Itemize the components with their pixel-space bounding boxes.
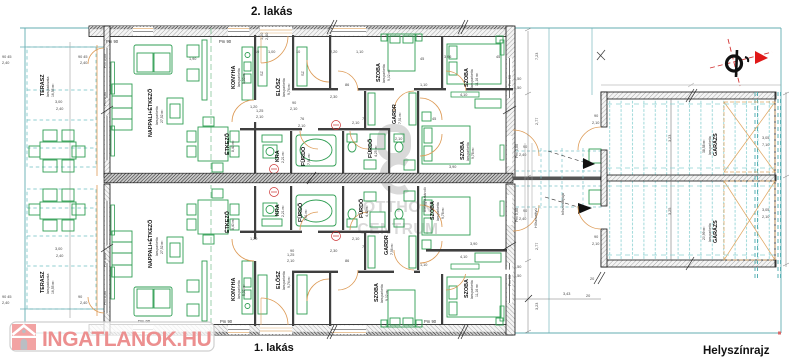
- red tick on bottom site line: [778, 332, 781, 335]
- svg-text:2,30: 2,30: [330, 249, 337, 253]
- garage door arcs: [578, 127, 601, 229]
- garage horizontal teal dashes: [607, 104, 775, 255]
- svg-text:90 45: 90 45: [2, 55, 12, 59]
- wall unit: [112, 84, 132, 130]
- svg-text:38,58 m²: 38,58 m²: [702, 139, 706, 153]
- svg-text:4,25 m²: 4,25 m²: [374, 145, 378, 157]
- sofa: [134, 45, 172, 74]
- bath3 fixtures: [394, 134, 415, 170]
- terrace top: dashed border: [27, 47, 96, 309]
- svg-text:7,23: 7,23: [535, 53, 539, 60]
- svg-text:7,91 m²: 7,91 m²: [307, 153, 311, 165]
- garage right boundary line: [774, 92, 776, 267]
- svg-text:2,10: 2,10: [762, 215, 769, 219]
- svg-text:1,90: 1,90: [189, 57, 196, 61]
- svg-text:3,05: 3,05: [762, 136, 769, 140]
- svg-text:Hőszivattyú: Hőszivattyú: [534, 208, 538, 228]
- door arcs: [88, 36, 539, 156]
- svg-text:2,40: 2,40: [80, 61, 87, 65]
- svg-text:9,74 m²: 9,74 m²: [287, 276, 291, 288]
- terrace left dim line: [69, 42, 71, 318]
- svg-text:3,25: 3,25: [668, 208, 672, 215]
- svg-text:8,40 m²: 8,40 m²: [231, 218, 235, 230]
- svg-text:GARÁZS: GARÁZS: [712, 133, 719, 156]
- svg-text:45: 45: [496, 55, 500, 59]
- svg-text:7,56 m²: 7,56 m²: [390, 243, 394, 255]
- svg-text:ELŐSZ: ELŐSZ: [275, 77, 282, 96]
- courtyard dashed grid: [516, 148, 602, 209]
- bath2 fixtures: [347, 134, 385, 169]
- svg-text:3,23: 3,23: [535, 303, 539, 310]
- interior walls: [240, 35, 513, 175]
- svg-text:Helyszínrajz: Helyszínrajz: [703, 345, 770, 357]
- svg-text:FÜRDŐ: FÜRDŐ: [297, 203, 304, 222]
- pantry washer: [262, 135, 282, 158]
- svg-text:2,30: 2,30: [330, 95, 337, 99]
- svg-text:5,33 m²: 5,33 m²: [242, 72, 246, 84]
- svg-text:16,55 m²: 16,55 m²: [51, 83, 55, 97]
- svg-text:1,10: 1,10: [420, 83, 427, 87]
- svg-text:lam.parketta: lam.parketta: [155, 106, 159, 125]
- red floor drain markers: [270, 121, 341, 174]
- svg-text:Pm 90: Pm 90: [219, 39, 232, 44]
- orange X cross top: [724, 102, 775, 172]
- dim tick cross: [597, 50, 605, 60]
- svg-text:INGATLANOK.HU: INGATLANOK.HU: [42, 328, 211, 351]
- orange X cross bottom: [724, 181, 775, 260]
- svg-text:lam.parketta: lam.parketta: [470, 280, 474, 299]
- svg-text:lam.parketta: lam.parketta: [155, 237, 159, 256]
- svg-text:2,20: 2,20: [330, 50, 337, 54]
- svg-text:lam.padozata: lam.padozata: [46, 77, 50, 97]
- right vertical dim line: [513, 28, 601, 333]
- svg-text:1. lakás: 1. lakás: [254, 342, 294, 354]
- svg-text:lam.parketta: lam.parketta: [466, 142, 470, 161]
- dimension texts left margin: [2, 55, 88, 305]
- ingatlanok.hu logo: [10, 322, 214, 351]
- svg-text:1,10: 1,10: [420, 263, 427, 267]
- svg-text:7,91 m²: 7,91 m²: [304, 209, 308, 221]
- right wall radiators: [500, 40, 504, 160]
- left exterior wall: [104, 26, 110, 177]
- svg-text:NAPPALI+ÉTKEZŐ: NAPPALI+ÉTKEZŐ: [146, 220, 154, 268]
- terrace edge orange line: [96, 45, 98, 176]
- svg-text:1,50: 1,50: [514, 86, 521, 90]
- svg-text:3,90: 3,90: [470, 242, 477, 246]
- heat pump units: [589, 149, 601, 204]
- section dash line: [210, 28, 212, 176]
- property dashed teal verticals at right: [755, 92, 781, 278]
- svg-text:lam.parketta: lam.parketta: [708, 223, 712, 242]
- svg-text:27,52 m²: 27,52 m²: [160, 240, 164, 254]
- svg-text:ÉTKEZŐ: ÉTKEZŐ: [223, 133, 231, 155]
- TERASZ label top: [40, 74, 55, 97]
- white cover over mirrored wall segs: [420, 270, 513, 274]
- svg-text:10: 10: [255, 50, 259, 54]
- svg-text:10: 10: [296, 50, 300, 54]
- svg-text:1,25: 1,25: [287, 253, 294, 257]
- svg-text:lam.parketta: lam.parketta: [382, 64, 386, 83]
- svg-text:9,74 m²: 9,74 m²: [287, 83, 291, 95]
- svg-text:20,99 m²: 20,99 m²: [702, 226, 706, 240]
- svg-text:4,10: 4,10: [460, 255, 467, 259]
- svg-text:3,43: 3,43: [563, 292, 570, 296]
- party wall: [104, 173, 513, 183]
- svg-text:2,10: 2,10: [592, 121, 599, 125]
- svg-text:ELŐSZ: ELŐSZ: [275, 270, 282, 289]
- svg-text:3,23: 3,23: [668, 135, 672, 142]
- svg-text:1,20: 1,20: [260, 33, 264, 40]
- svg-text:2,40: 2,40: [519, 217, 526, 221]
- svg-text:FÜRDŐ: FÜRDŐ: [300, 147, 307, 166]
- dining table + chairs: [187, 117, 239, 172]
- party wall extension to garage: [513, 177, 608, 181]
- window slots in right wall: [507, 58, 512, 166]
- svg-text:2,40: 2,40: [56, 107, 63, 111]
- svg-text:Pm 90: Pm 90: [508, 75, 512, 86]
- svg-text:90: 90: [594, 235, 598, 239]
- svg-text:2,10: 2,10: [352, 121, 359, 125]
- TERASZ label bottom: [40, 271, 55, 294]
- svg-text:2,21 m²: 2,21 m²: [281, 205, 285, 217]
- wardrobe SZ 1: [258, 47, 267, 86]
- compass: [710, 39, 772, 86]
- kitchen counter: [242, 47, 253, 100]
- svg-text:5,33 m²: 5,33 m²: [242, 284, 246, 296]
- svg-text:16,55 m²: 16,55 m²: [51, 280, 55, 294]
- svg-text:90 45: 90 45: [78, 55, 88, 59]
- svg-text:90: 90: [292, 101, 296, 105]
- bathtub bath1: [296, 135, 336, 166]
- svg-text:7,51 m²: 7,51 m²: [398, 112, 402, 124]
- garage floor bottom half: [607, 181, 775, 260]
- right dim texts: [514, 53, 590, 310]
- window slots in top wall: [133, 27, 366, 36]
- svg-text:3,05: 3,05: [762, 208, 769, 212]
- garage right dim line: [783, 92, 789, 267]
- svg-text:90: 90: [290, 249, 294, 253]
- svg-text:lam.parketta: lam.parketta: [282, 78, 286, 97]
- svg-text:Pm 90: Pm 90: [106, 39, 119, 44]
- svg-text:27,52 m²: 27,52 m²: [160, 109, 164, 123]
- window slots in left wall: [105, 48, 109, 160]
- garage middle divider line: [670, 99, 672, 260]
- right exterior wall: [506, 26, 515, 177]
- svg-text:86: 86: [345, 259, 349, 263]
- svg-text:2,10: 2,10: [256, 115, 263, 119]
- svg-text:20: 20: [586, 294, 590, 298]
- svg-text:Pm 0,00: Pm 0,00: [103, 54, 107, 68]
- svg-text:2,77: 2,77: [535, 243, 539, 250]
- svg-text:1,25: 1,25: [256, 109, 263, 113]
- svg-text:ÉTKEZŐ: ÉTKEZŐ: [223, 211, 231, 233]
- svg-text:Pm 90: Pm 90: [220, 319, 233, 324]
- terrace table top: [29, 130, 85, 172]
- gardrob shelves: [368, 93, 416, 125]
- svg-text:2,40: 2,40: [2, 61, 9, 65]
- wardrobe SZ 2: [297, 47, 307, 86]
- svg-text:GARÁZS: GARÁZS: [712, 220, 719, 243]
- svg-text:lam.parketta: lam.parketta: [436, 202, 440, 221]
- svg-text:lam.parketta: lam.parketta: [708, 136, 712, 155]
- svg-text:lam.parketta: lam.parketta: [237, 280, 241, 299]
- svg-text:NAPPALI+ÉTKEZŐ: NAPPALI+ÉTKEZŐ: [146, 89, 154, 137]
- svg-text:2,10: 2,10: [290, 107, 297, 111]
- svg-text:2,40: 2,40: [80, 301, 87, 305]
- svg-text:2. lakás: 2. lakás: [251, 6, 293, 18]
- svg-text:11,16 m²: 11,16 m²: [475, 283, 479, 297]
- svg-text:1,50: 1,50: [514, 77, 521, 81]
- svg-text:2,40: 2,40: [519, 153, 526, 157]
- svg-text:2,10: 2,10: [592, 242, 599, 246]
- svg-text:lam.parketta: lam.parketta: [380, 284, 384, 303]
- svg-text:7,10: 7,10: [762, 143, 769, 147]
- svg-text:Pm 90: Pm 90: [424, 319, 437, 324]
- svg-text:1,20: 1,20: [250, 105, 257, 109]
- svg-text:9,78 m²: 9,78 m²: [471, 147, 475, 159]
- svg-text:90: 90: [594, 114, 598, 118]
- bed room B: [447, 36, 503, 84]
- garage left wall pieces: [601, 92, 607, 127]
- svg-text:2,21 m²: 2,21 m²: [281, 151, 285, 163]
- svg-text:3,00: 3,00: [55, 247, 62, 251]
- svg-text:Pm 90: Pm 90: [508, 275, 512, 286]
- tv bench: [167, 98, 183, 124]
- svg-text:9,78 m²: 9,78 m²: [441, 207, 445, 219]
- svg-text:Pm 3,00: Pm 3,00: [103, 92, 107, 106]
- svg-text:hőszivattyúja: hőszivattyúja: [561, 192, 565, 215]
- svg-text:melegvíztároló: melegvíztároló: [423, 187, 427, 212]
- svg-text:9,02 m²: 9,02 m²: [387, 69, 391, 81]
- svg-text:1,50: 1,50: [514, 265, 521, 269]
- svg-text:20: 20: [590, 277, 594, 281]
- svg-text:3,90: 3,90: [449, 165, 456, 169]
- left wall radiators: [111, 62, 115, 156]
- svg-text:1,00: 1,00: [268, 50, 275, 54]
- garage labels: [590, 114, 769, 281]
- bar counter + chairs: [187, 40, 207, 100]
- svg-text:75: 75: [362, 117, 366, 121]
- svg-text:90: 90: [78, 295, 82, 299]
- bed room C: [422, 99, 501, 164]
- svg-text:3,96: 3,96: [444, 55, 451, 59]
- svg-text:lam.parketta: lam.parketta: [282, 271, 286, 290]
- svg-text:lam.padozata: lam.padozata: [46, 274, 50, 294]
- bed room A: [381, 34, 422, 71]
- arrow marker 1: [548, 151, 595, 169]
- svg-text:2,40: 2,40: [265, 33, 269, 40]
- svg-text:1,50: 1,50: [514, 274, 521, 278]
- garage top wall: [601, 92, 776, 99]
- svg-text:FÜRDŐ: FÜRDŐ: [358, 199, 365, 218]
- svg-text:9,02 m²: 9,02 m²: [385, 289, 389, 301]
- garage floor top half: [607, 99, 775, 175]
- svg-text:lam.parketta: lam.parketta: [237, 68, 241, 87]
- svg-text:2,10: 2,10: [298, 124, 305, 128]
- svg-text:Pm 0,00: Pm 0,00: [103, 291, 107, 305]
- svg-text:lam.parketta: lam.parketta: [470, 69, 474, 88]
- svg-text:45: 45: [432, 117, 436, 121]
- radiator: [451, 92, 479, 97]
- terrace table bottom (mirror): [29, 189, 85, 231]
- svg-text:45: 45: [420, 57, 424, 61]
- svg-text:2,77: 2,77: [535, 118, 539, 125]
- svg-text:8,40 m²: 8,40 m²: [231, 140, 235, 152]
- svg-text:4,10: 4,10: [460, 93, 467, 97]
- svg-text:SZ: SZ: [260, 70, 264, 76]
- svg-text:1,20: 1,20: [250, 237, 257, 241]
- arrow marker 2: [545, 197, 592, 214]
- garage bottom wall: [601, 260, 776, 267]
- svg-text:SZ: SZ: [301, 70, 305, 76]
- svg-text:4,42 m²: 4,42 m²: [365, 205, 369, 217]
- svg-text:2,40: 2,40: [56, 254, 63, 258]
- svg-text:76: 76: [300, 117, 304, 121]
- svg-text:Pm 3,00: Pm 3,00: [103, 253, 107, 267]
- svg-text:2,40: 2,40: [2, 301, 9, 305]
- svg-text:1,10: 1,10: [356, 50, 363, 54]
- apartment graphics (top), mirrored below: [88, 26, 539, 177]
- svg-text:2,10: 2,10: [352, 237, 359, 241]
- svg-text:2,10: 2,10: [287, 259, 294, 263]
- wall joint ticks: [101, 20, 697, 339]
- bottom bedroom divider wall (actual position): [426, 249, 507, 252]
- svg-text:90 45: 90 45: [2, 295, 12, 299]
- watermark OC Otthon Centrum: [358, 128, 439, 238]
- garage middle wall: [601, 175, 776, 181]
- courtyard dim lines: [525, 143, 532, 218]
- svg-text:11,16 m²: 11,16 m²: [475, 72, 479, 86]
- svg-text:86: 86: [345, 83, 349, 87]
- svg-text:FÜRDŐ: FÜRDŐ: [367, 139, 374, 158]
- garage top dim line: [601, 83, 781, 87]
- svg-text:2,10: 2,10: [395, 137, 402, 141]
- svg-text:3,00: 3,00: [55, 100, 62, 104]
- top exterior wall: [89, 26, 513, 37]
- svg-text:75: 75: [362, 245, 366, 249]
